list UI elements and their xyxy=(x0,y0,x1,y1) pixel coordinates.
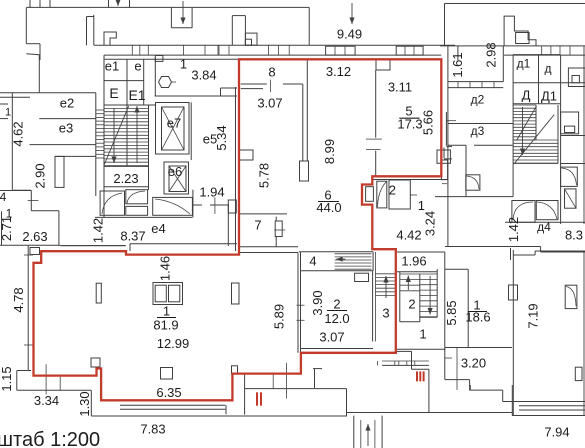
left stair core walls xyxy=(103,55,105,196)
window band right of porch xyxy=(382,360,429,362)
tick xyxy=(28,200,39,202)
svg-text:штаб 1:200: штаб 1:200 xyxy=(0,429,100,448)
double pillar box xyxy=(153,283,183,305)
svg-text:12.99: 12.99 xyxy=(157,336,190,351)
svg-text:4: 4 xyxy=(0,190,7,204)
svg-text:e4: e4 xyxy=(151,221,165,236)
Д / Д1 cells xyxy=(538,83,540,104)
pier right of red wall xyxy=(441,160,447,180)
wall above lower unit right part xyxy=(61,245,126,247)
right column boxes upper xyxy=(560,55,562,224)
nested wall corner detail xyxy=(104,32,116,45)
pier on wall xyxy=(509,285,518,300)
svg-text:3.90: 3.90 xyxy=(310,290,325,315)
svg-text:1.46: 1.46 xyxy=(158,256,173,281)
svg-text:2.63: 2.63 xyxy=(22,229,47,244)
svg-text:1: 1 xyxy=(163,304,170,319)
svg-text:2.98: 2.98 xyxy=(484,42,499,67)
red apartment outline xyxy=(34,59,442,400)
svg-text:7: 7 xyxy=(254,218,261,233)
svg-text:e3: e3 xyxy=(59,121,73,136)
pier on left red wall xyxy=(240,150,254,160)
left bay wall xyxy=(93,15,95,45)
svg-text:9.49: 9.49 xyxy=(337,27,362,42)
svg-text:3: 3 xyxy=(382,306,389,321)
right core left wall xyxy=(447,46,449,246)
svg-text:1.15: 1.15 xyxy=(0,366,14,391)
svg-text:1: 1 xyxy=(180,57,187,72)
small square above red notch xyxy=(91,358,100,367)
top exterior wall band (9.49) xyxy=(94,44,455,46)
dim ticks 4.78 xyxy=(24,254,33,256)
room 2 / 12.0 xyxy=(300,252,302,353)
corridor bottom pier xyxy=(300,161,309,181)
vent box room 2 xyxy=(355,273,369,281)
stair diagonal left core xyxy=(104,106,128,165)
svg-text:5.66: 5.66 xyxy=(421,110,436,135)
window band above д2 xyxy=(448,81,503,83)
svg-text:4.42: 4.42 xyxy=(396,228,421,243)
д1 / д cells xyxy=(512,55,514,104)
svg-text:7.19: 7.19 xyxy=(526,303,541,328)
wall pier e4 xyxy=(228,200,236,213)
small room 1 / 2.63 bay bottom-left xyxy=(0,190,31,192)
window boxes in band xyxy=(326,46,356,55)
svg-text:2: 2 xyxy=(333,297,340,312)
dim tick 3.07 xyxy=(269,80,271,93)
right edge balcony boxes xyxy=(568,68,585,87)
dim tick 1.94 xyxy=(214,197,216,214)
svg-text:8.3: 8.3 xyxy=(565,228,583,243)
pillar right xyxy=(232,283,240,304)
fixtures row under elevators xyxy=(100,191,124,215)
stair treads left core xyxy=(104,104,127,106)
corridor 3 stair flight xyxy=(376,273,397,275)
svg-text:1: 1 xyxy=(418,198,425,213)
dim ticks 3.20 area xyxy=(456,348,458,391)
bottom wall center-right xyxy=(347,412,513,414)
wall right of room 2 top xyxy=(445,112,447,146)
right edge building line xyxy=(583,46,585,224)
wall under red bottom right xyxy=(372,179,448,181)
svg-text:1.96: 1.96 xyxy=(401,254,426,269)
e4 corridor walls xyxy=(192,204,202,206)
elevator e7 xyxy=(156,103,190,155)
stair arrows left core xyxy=(113,108,115,163)
small box left of red corner xyxy=(30,248,40,255)
wall pier left xyxy=(55,156,64,187)
svg-text:5.85: 5.85 xyxy=(444,300,459,325)
band below д block xyxy=(445,246,541,248)
svg-text:7.94: 7.94 xyxy=(544,425,569,440)
svg-text:6.35: 6.35 xyxy=(156,385,181,400)
svg-text:3.07: 3.07 xyxy=(257,96,282,111)
room 1/18.6 walls xyxy=(467,269,469,347)
room 4 landing and flight xyxy=(335,253,372,255)
svg-text:e7: e7 xyxy=(167,116,181,131)
svg-text:4: 4 xyxy=(309,254,316,269)
outline drop to band xyxy=(308,7,310,45)
room 2 fixtures xyxy=(377,181,387,208)
svg-text:д1: д1 xyxy=(517,57,531,71)
svg-text:3.07: 3.07 xyxy=(319,330,344,345)
svg-text:д: д xyxy=(544,62,551,76)
pier below top red line xyxy=(376,59,390,70)
hexagon washbasin xyxy=(159,77,172,88)
svg-text:8: 8 xyxy=(268,65,275,80)
pillar left xyxy=(96,283,101,303)
small box on wall xyxy=(155,56,163,62)
svg-text:44.0: 44.0 xyxy=(316,200,341,215)
svg-text:1: 1 xyxy=(5,107,11,119)
svg-text:5.89: 5.89 xyxy=(272,304,287,329)
right bottom section walls xyxy=(444,349,446,379)
elevator e6 xyxy=(164,162,189,194)
svg-text:3.20: 3.20 xyxy=(461,356,486,371)
svg-text:81.9: 81.9 xyxy=(153,318,178,333)
svg-text:2.23: 2.23 xyxy=(113,171,138,186)
shaft box above band x232 xyxy=(231,16,233,46)
svg-text:1.42: 1.42 xyxy=(506,217,521,242)
room 7 xyxy=(238,213,287,215)
svg-text:1.42: 1.42 xyxy=(91,218,106,243)
red section mark II xyxy=(256,392,258,405)
pier left of д3 hall xyxy=(437,150,450,163)
square pillar lower xyxy=(161,368,173,380)
svg-text:д2: д2 xyxy=(471,93,485,107)
right bottom stair core xyxy=(397,271,437,273)
bottom-left outer boundary xyxy=(17,370,31,372)
landing 2.23 xyxy=(104,165,149,167)
svg-text:8.37: 8.37 xyxy=(120,229,145,244)
top-right outer wall xyxy=(445,3,585,5)
svg-text:1.30: 1.30 xyxy=(77,391,92,416)
vent box above stair xyxy=(516,33,530,44)
room e3 xyxy=(30,144,96,146)
top-left outer wall xyxy=(26,6,309,8)
svg-text:2: 2 xyxy=(408,297,415,312)
room 7.19 fixtures xyxy=(565,285,577,308)
room e2 xyxy=(38,55,40,93)
neighbor stair fragment xyxy=(96,109,104,111)
svg-text:4.78: 4.78 xyxy=(11,287,26,312)
svg-text:2.71: 2.71 xyxy=(0,216,14,241)
bottom-right ramp lines xyxy=(512,401,585,403)
svg-text:1.61: 1.61 xyxy=(450,52,465,77)
room 2 niche door xyxy=(366,187,374,202)
terrace steps bottom-center xyxy=(120,404,225,406)
svg-text:17.3: 17.3 xyxy=(397,117,422,132)
д2 д3 rooms xyxy=(448,123,513,125)
svg-text:д3: д3 xyxy=(471,124,485,138)
svg-text:e6: e6 xyxy=(168,164,182,179)
svg-text:2: 2 xyxy=(389,183,396,198)
corridor room 1 3.84 walls xyxy=(155,95,238,97)
svg-text:2.90: 2.90 xyxy=(33,163,48,188)
svg-text:д4: д4 xyxy=(537,220,551,234)
svg-text:5.34: 5.34 xyxy=(214,125,229,150)
bottom row fixtures right core xyxy=(435,196,513,198)
fraction lines xyxy=(157,317,176,319)
svg-text:e: e xyxy=(134,59,141,74)
entrance box top with down arrow xyxy=(108,0,110,8)
svg-text:3.12: 3.12 xyxy=(326,64,351,79)
svg-text:e2: e2 xyxy=(60,96,74,111)
svg-text:7.83: 7.83 xyxy=(140,422,165,437)
room 1 of stair core xyxy=(397,348,445,350)
room 5 left wall xyxy=(375,70,377,138)
svg-text:3.34: 3.34 xyxy=(34,393,59,408)
svg-text:5.78: 5.78 xyxy=(257,163,272,188)
bottom porch with up arrow xyxy=(353,416,355,448)
black tab on red corner x232 xyxy=(232,366,238,374)
entry arrow at top center xyxy=(351,3,353,24)
svg-text:3.84: 3.84 xyxy=(191,68,216,83)
svg-text:E1: E1 xyxy=(128,87,145,103)
right stair diagonal and arrows xyxy=(517,106,537,140)
svg-text:1.94: 1.94 xyxy=(199,185,224,200)
svg-text:8.99: 8.99 xyxy=(322,139,337,164)
room 8 walls xyxy=(241,83,267,85)
svg-text:Д1: Д1 xyxy=(541,89,557,104)
svg-text:1: 1 xyxy=(419,327,426,342)
niche right of red corner xyxy=(396,350,412,352)
svg-text:e1: e1 xyxy=(105,59,119,74)
entrance porch with down arrow xyxy=(170,8,172,28)
left outer wall mid xyxy=(27,245,29,370)
svg-text:12.0: 12.0 xyxy=(324,311,349,326)
svg-text:3.24: 3.24 xyxy=(423,211,438,236)
left edge neighbor fragments xyxy=(0,92,39,94)
dim ticks bottom-left xyxy=(45,364,47,394)
svg-text:4.62: 4.62 xyxy=(11,121,26,146)
svg-text:Д: Д xyxy=(522,88,531,103)
red section mark III xyxy=(416,371,418,381)
svg-text:3.11: 3.11 xyxy=(388,80,412,95)
stepped wall top-right xyxy=(504,16,536,46)
svg-text:E: E xyxy=(109,85,118,101)
band above lower unit xyxy=(61,245,126,247)
right stair flights xyxy=(513,104,536,106)
